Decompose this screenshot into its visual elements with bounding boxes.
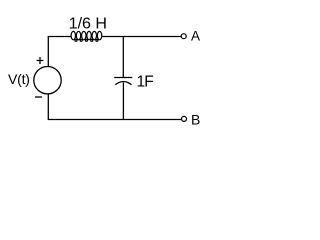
wire capacitor bottom branch: [122, 82, 124, 120]
wire top horizontal right segment: [102, 36, 181, 38]
inductor L1 coil: [71, 31, 102, 41]
minus polarity mark: [35, 96, 42, 98]
svg-text:1/6 H: 1/6 H: [69, 16, 107, 33]
terminal B: [182, 116, 187, 121]
voltage source V(t) circle: [34, 67, 61, 94]
plus polarity mark: [37, 57, 44, 64]
capacitor C1 top plate: [114, 77, 132, 79]
wire bottom horizontal: [48, 119, 182, 121]
wire bottom-left vertical: [47, 93, 49, 119]
capacitor C1 curved bottom plate: [115, 82, 131, 85]
terminal A: [181, 34, 186, 39]
svg-text:V(t): V(t): [8, 71, 30, 87]
svg-text:B: B: [191, 112, 200, 128]
wire capacitor top branch: [122, 37, 124, 78]
svg-text:F: F: [144, 74, 153, 91]
svg-text:A: A: [191, 29, 200, 44]
wire top horizontal left segment: [48, 36, 71, 38]
wire top-left vertical: [47, 37, 49, 67]
